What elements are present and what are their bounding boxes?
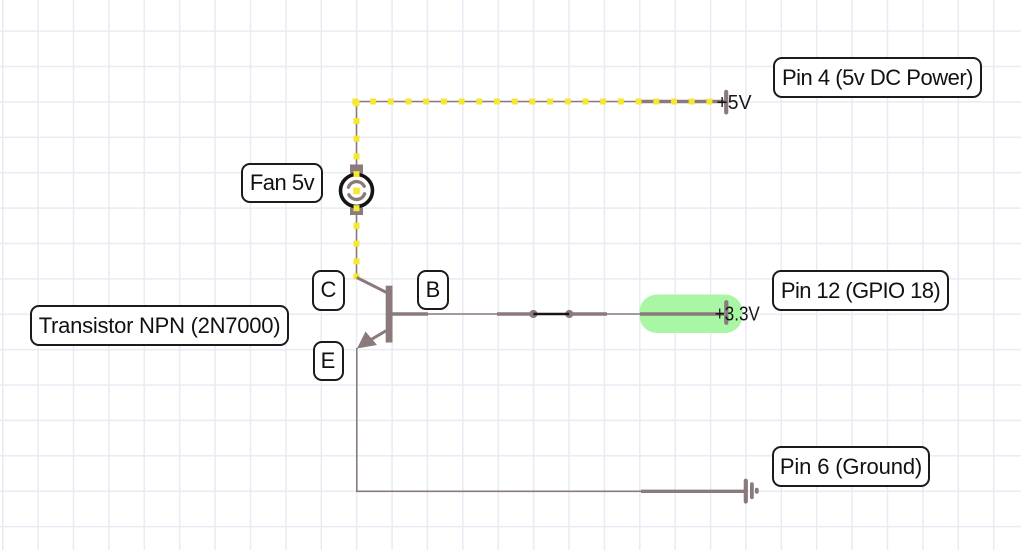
junction pad A: [529, 310, 537, 318]
label C (collector): [312, 270, 345, 311]
ground symbol GND: [746, 481, 757, 502]
svg-text:+3.3V: +3.3V: [715, 304, 761, 326]
transistor Q1 2N7000: [357, 278, 428, 349]
green probe highlight on GPIO lead: [640, 295, 743, 334]
wire 5V horizontal: [357, 101, 726, 103]
wire emitter to ground: [357, 348, 744, 491]
+5V power pin P1: [717, 92, 753, 114]
wire 5V vertical to fan: [356, 100, 358, 278]
wire base to pads: [428, 313, 533, 315]
label Transistor NPN (2N7000): [30, 305, 289, 346]
label Fan 5v: [241, 163, 323, 203]
label E (emitter): [313, 341, 344, 381]
wire pads to GPIO pin: [569, 312, 724, 315]
label Pin 6 (Ground): [772, 446, 930, 487]
current dots on 5V net: [352, 99, 712, 280]
label Pin 12 (GPIO 18): [772, 270, 949, 311]
svg-text:+5V: +5V: [717, 92, 753, 114]
label B (base): [417, 270, 449, 310]
junction pad B: [565, 310, 573, 318]
label Pin 4 (5v DC Power): [773, 57, 982, 98]
black jumper wire: [533, 313, 569, 316]
+3.3V GPIO pin P2: [715, 302, 761, 325]
motor M1 Fan 5v: [341, 165, 373, 216]
